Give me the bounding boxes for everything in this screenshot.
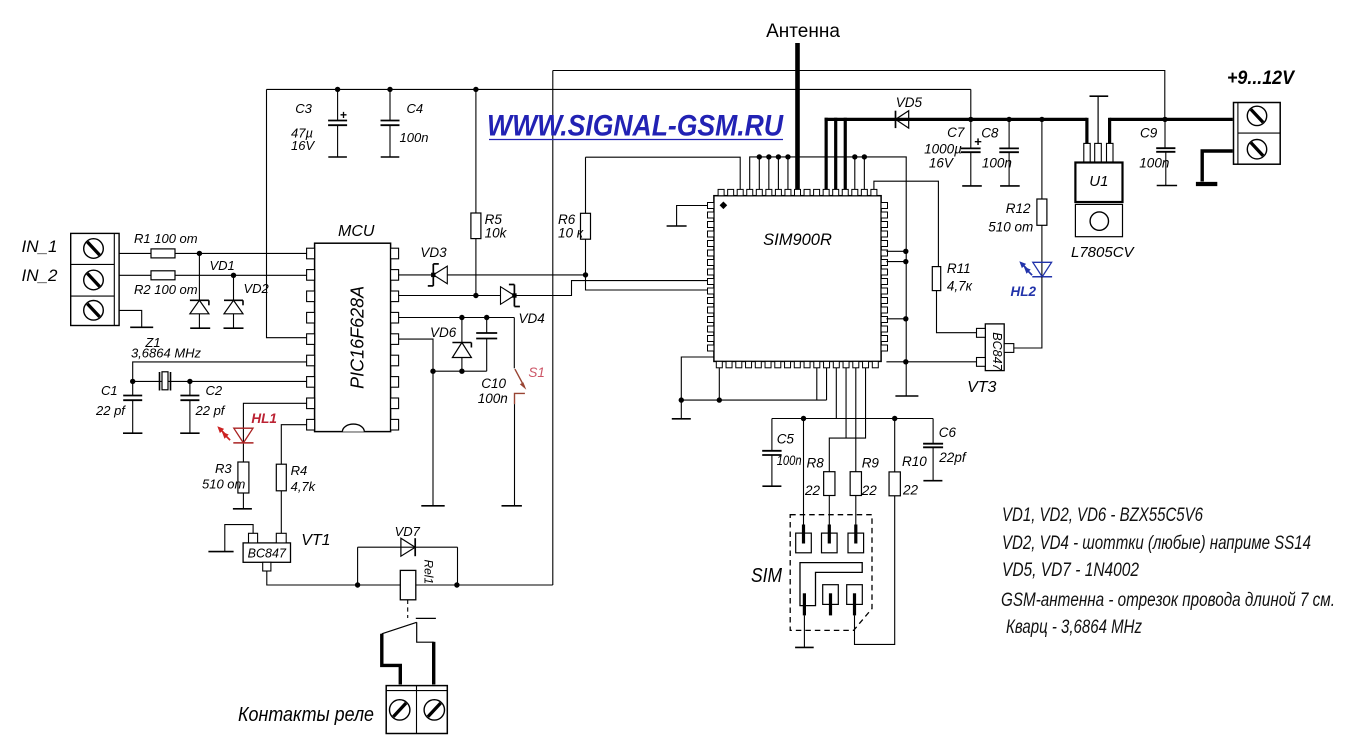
wire S1 bottom	[514, 404, 516, 506]
svg-text:VD2: VD2	[244, 281, 270, 296]
ground C3	[328, 156, 347, 158]
svg-text:R12: R12	[1006, 201, 1031, 216]
ground C8	[1000, 185, 1020, 187]
antenna lead	[795, 43, 800, 189]
wire crystal top	[133, 362, 307, 382]
wires segB stubs	[758, 157, 760, 190]
SIM900R top pins	[718, 189, 724, 195]
wire R3 to gnd	[242, 493, 244, 509]
svg-text:3,6864 MHz: 3,6864 MHz	[131, 346, 202, 361]
wire VD3 right	[447, 274, 585, 276]
wire U1 in thick	[1085, 118, 1088, 144]
node relay right	[454, 582, 459, 587]
svg-text:R4: R4	[291, 463, 308, 478]
node rail R10	[892, 416, 897, 421]
screw relay 2	[424, 700, 444, 720]
wire gnd line y400	[681, 399, 826, 401]
svg-text:VD1: VD1	[210, 258, 235, 273]
watermark underline	[489, 139, 783, 141]
svg-text:100n: 100n	[478, 391, 508, 406]
SIM900R left pins	[708, 203, 714, 209]
terminal block IN	[71, 233, 119, 325]
wire R12 to HL2	[1041, 225, 1043, 276]
svg-text:C3: C3	[295, 101, 312, 116]
svg-text:R2 100 om: R2 100 om	[134, 282, 198, 297]
node C3 top	[335, 87, 340, 92]
wire R11 top	[874, 181, 939, 266]
ground R3	[233, 508, 252, 510]
SIM900R pin1 mark	[720, 201, 728, 209]
wire relay pole right thick	[432, 642, 435, 685]
svg-text:VD6: VD6	[430, 325, 457, 340]
HL1 arrows	[221, 430, 226, 435]
VT3 pin left-bottom	[977, 358, 986, 367]
wire SIM topleft gnd	[677, 206, 708, 227]
wire R10 top	[894, 419, 896, 472]
svg-text:Антенна: Антенна	[766, 21, 840, 42]
svg-text:10k: 10k	[485, 226, 508, 241]
SIM holder outline	[790, 515, 872, 631]
wire IN_gnd	[119, 310, 142, 327]
svg-text:R8: R8	[807, 456, 825, 471]
svg-text:+9...12V: +9...12V	[1227, 67, 1296, 89]
svg-text:22: 22	[902, 483, 919, 498]
svg-text:Контакты реле: Контакты реле	[238, 704, 374, 726]
node C1	[130, 379, 135, 384]
U1 gnd T bar	[1090, 95, 1109, 97]
ground SIM bottomleft	[672, 418, 691, 420]
node x906 a	[903, 249, 908, 254]
svg-text:C8: C8	[981, 126, 999, 141]
diode VD5	[896, 111, 909, 128]
svg-text:R11: R11	[947, 261, 971, 276]
switch S1 contact	[515, 393, 525, 404]
node C7	[968, 117, 973, 122]
wire VD7 loop right	[457, 547, 459, 585]
svg-text:22 pf: 22 pf	[95, 403, 126, 418]
svg-text:C6: C6	[939, 425, 957, 440]
svg-text:C5: C5	[777, 432, 795, 447]
wire pin up 814	[816, 368, 818, 400]
capacitor C10	[486, 318, 488, 334]
wire rail to pad1	[803, 419, 805, 529]
wire S1 top	[513, 318, 515, 369]
svg-text:C4: C4	[407, 101, 424, 116]
svg-text:22 pf: 22 pf	[195, 403, 226, 418]
wire top box line	[553, 71, 1165, 120]
transistor VT3 body	[985, 324, 1004, 371]
ground C7	[962, 185, 982, 187]
wire VD3 left	[399, 274, 434, 276]
wire U1 gnd pin	[1097, 96, 1099, 143]
wire R6 to SIM	[586, 275, 708, 290]
svg-text:VT1: VT1	[301, 532, 330, 549]
svg-text:4,7k: 4,7k	[291, 479, 317, 494]
node VD2	[231, 273, 236, 278]
svg-text:VD7: VD7	[395, 524, 421, 539]
wire C5C6 rail	[772, 418, 933, 420]
svg-text:C7: C7	[947, 125, 965, 140]
switch S1 lever	[515, 369, 525, 387]
MCU bottom notch	[342, 424, 364, 432]
VT1 pin top-left	[249, 533, 258, 543]
wires thick to SIM pins	[825, 118, 828, 190]
wire R5 bottom	[475, 239, 477, 296]
wire segA R6 line	[586, 157, 741, 189]
zener VD6	[461, 318, 463, 343]
ground C1	[123, 432, 142, 434]
U1 lower body	[1075, 204, 1122, 236]
svg-text:VT3: VT3	[967, 379, 996, 396]
ground S1	[502, 505, 522, 507]
ground SIM pad	[795, 646, 814, 648]
resistor R4	[276, 464, 286, 491]
wire SIM right pin7	[886, 261, 905, 263]
wire U1 out thick	[1108, 118, 1111, 144]
svg-text:BC847: BC847	[248, 546, 287, 560]
svg-text:VD2, VD4 - шоттки (любые) напр: VD2, VD4 - шоттки (любые) наприме SS14	[1002, 532, 1311, 554]
wire VD7 loop left	[357, 547, 359, 585]
wire SIM pad gnd	[803, 615, 805, 647]
node gnd line a	[679, 397, 684, 402]
wire SIM right pin6	[886, 250, 905, 252]
screw IN_1	[84, 239, 104, 259]
wire top-left rail +5V	[267, 88, 971, 90]
wire MCU pin4	[399, 317, 515, 319]
wire VD4 left	[399, 295, 501, 297]
capacitor C7	[961, 147, 981, 149]
capacitor C4	[389, 89, 391, 120]
terminal block 12V	[1234, 103, 1281, 165]
svg-text:VD5, VD7 - 1N4002: VD5, VD7 - 1N4002	[1002, 559, 1139, 581]
wire SIM right pin13	[886, 318, 905, 320]
wire relay pole right	[417, 622, 434, 642]
screw IN_2	[84, 270, 104, 290]
svg-text:22pf: 22pf	[938, 450, 967, 465]
svg-text:BC847: BC847	[990, 332, 1004, 371]
capacitor C9	[1156, 147, 1175, 149]
capacitor C3	[337, 89, 339, 120]
wire rail to C7	[970, 89, 972, 148]
wire long vertical to relay	[552, 71, 554, 586]
wire relay rail	[358, 584, 553, 586]
wire MCU to HL1	[243, 403, 306, 462]
svg-text:R10: R10	[902, 454, 927, 469]
ground x906	[895, 395, 918, 397]
diode VD3 schottky	[433, 266, 447, 284]
wire MCU pin5 down	[399, 339, 433, 506]
ground C5	[762, 485, 781, 487]
svg-text:C1: C1	[101, 383, 118, 398]
node R5 top	[473, 87, 478, 92]
ground MCU wire	[421, 505, 444, 507]
svg-text:1000µ: 1000µ	[924, 142, 962, 157]
wire segB	[750, 157, 907, 190]
svg-text:100n: 100n	[777, 453, 802, 468]
SIM center track	[800, 563, 862, 606]
resistor R1	[151, 249, 175, 258]
svg-text:WWW.SIGNAL-GSM.RU: WWW.SIGNAL-GSM.RU	[487, 109, 784, 142]
wire R6 bottom	[585, 239, 587, 275]
svg-text:L7805CV: L7805CV	[1071, 244, 1136, 261]
LED HL1	[234, 428, 253, 443]
ground SIM topleft	[667, 225, 687, 227]
wire thick rail left	[825, 118, 1087, 121]
node VD6 top	[459, 315, 464, 320]
capacitor C2	[189, 381, 191, 395]
svg-text:HL2: HL2	[1011, 284, 1037, 299]
wire VT3 base	[886, 361, 976, 363]
svg-text:C9: C9	[1140, 125, 1158, 140]
svg-text:S1: S1	[528, 365, 545, 380]
ground C9	[1157, 185, 1177, 187]
wire pin 833 to rail	[835, 368, 837, 419]
U1 pin boxes	[1084, 143, 1090, 162]
svg-text:510 om: 510 om	[988, 220, 1033, 235]
relay blade	[382, 622, 417, 634]
svg-text:VD1, VD2, VD6 - BZX55C5V6: VD1, VD2, VD6 - BZX55C5V6	[1002, 504, 1203, 526]
svg-text:Rel1: Rel1	[421, 559, 435, 584]
wire R4 to VT1	[280, 491, 282, 534]
resistor R10	[889, 472, 900, 496]
wire pin 843 stub	[845, 368, 847, 438]
wire VT1 emitter to gnd	[225, 525, 253, 552]
wire C9	[1164, 119, 1166, 148]
node x906 b	[903, 259, 908, 264]
wire thick rail right	[1110, 118, 1233, 121]
svg-text:VD5: VD5	[896, 95, 923, 110]
SIM bottom pads	[823, 585, 839, 605]
ground 12V thick	[1196, 182, 1217, 186]
svg-text:C2: C2	[206, 383, 223, 398]
wire pin up 824 corner	[826, 368, 828, 400]
resistor R8	[824, 472, 835, 496]
node gnd line b	[717, 397, 722, 402]
MCU pins	[307, 248, 315, 259]
resistor R11	[932, 267, 940, 291]
VT3 pin right	[1004, 344, 1014, 353]
SIM900R right pins	[881, 203, 887, 209]
relay contact bar	[416, 617, 436, 619]
ground C6	[923, 480, 942, 482]
op-amp MCU body	[315, 243, 391, 431]
crystal Z1	[159, 372, 161, 391]
ground VD2	[224, 327, 244, 329]
svg-text:IN_2: IN_2	[22, 266, 58, 285]
svg-text:VD3: VD3	[420, 245, 447, 260]
svg-text:R3: R3	[215, 461, 232, 476]
wire left rail drop to MCU VDD pin	[267, 89, 307, 337]
screw 12V-	[1247, 140, 1266, 159]
U1 mount hole	[1090, 212, 1108, 230]
svg-text:22: 22	[804, 483, 821, 498]
relay dashed link	[407, 600, 409, 618]
wire crystal mid	[133, 380, 307, 382]
wire R2 to MCU	[175, 274, 307, 276]
node VT3 base	[903, 359, 908, 364]
node C2	[187, 379, 192, 384]
VT1 pin bottom	[263, 562, 271, 571]
svg-text:HL1: HL1	[251, 411, 277, 426]
node C10 top	[484, 315, 489, 320]
node wire433	[430, 369, 435, 374]
wire R1 to MCU	[175, 252, 307, 254]
wire R12 top	[1041, 119, 1043, 199]
node C9	[1162, 117, 1167, 122]
svg-text:100n: 100n	[982, 156, 1012, 171]
svg-text:PIC16F628A: PIC16F628A	[348, 286, 368, 389]
wire IN_2 to R2	[119, 274, 151, 276]
wire R10 bottom	[855, 496, 895, 645]
wire IN_1 to R1	[119, 252, 151, 254]
terminal block relay	[386, 686, 447, 734]
node C4 top	[387, 87, 392, 92]
ground VT1	[208, 551, 233, 553]
SIM900R bottom pins	[716, 361, 722, 367]
wire R8 pins	[829, 368, 865, 472]
wire R5 top	[475, 89, 477, 213]
wire C8	[1008, 119, 1010, 148]
capacitor C6	[932, 419, 934, 444]
svg-text:R1 100 om: R1 100 om	[134, 231, 198, 246]
wire HL2 to VT3	[1014, 277, 1042, 348]
capacitor C1	[132, 381, 134, 395]
transistor VT1 body	[243, 543, 290, 562]
svg-text:510 om: 510 om	[202, 477, 246, 492]
ground C4	[381, 156, 400, 158]
svg-text:MCU: MCU	[338, 223, 375, 240]
LED HL2	[1033, 262, 1052, 277]
resistor R6	[581, 213, 591, 239]
resistor R9	[850, 472, 861, 496]
svg-text:+: +	[340, 108, 347, 122]
resistor R5	[471, 213, 481, 239]
svg-text:10 к: 10 к	[558, 226, 584, 241]
diode VD7	[401, 538, 415, 556]
wire VD4 right	[514, 281, 707, 296]
svg-text:SIM: SIM	[751, 565, 782, 587]
VT3 pin left-top	[977, 328, 986, 337]
svg-text:Кварц - 3,6864 MHz: Кварц - 3,6864 MHz	[1006, 616, 1142, 638]
SIM top pads	[796, 533, 812, 553]
wire pin up 719	[718, 368, 720, 400]
relay coil Rel1	[400, 570, 416, 599]
svg-text:100n: 100n	[400, 130, 429, 145]
svg-text:16V: 16V	[929, 156, 955, 171]
U1 body	[1075, 163, 1122, 203]
node x906 c	[903, 316, 908, 321]
svg-text:SIM900R: SIM900R	[763, 231, 832, 249]
svg-text:100n: 100n	[1139, 156, 1169, 171]
screw relay 1	[390, 700, 410, 720]
resistor R12	[1037, 199, 1047, 225]
wire 12V gnd thick	[1202, 151, 1233, 182]
VT1 pin top-right	[276, 533, 286, 543]
wire R8 to pad	[828, 496, 830, 529]
svg-text:16V: 16V	[291, 138, 315, 153]
node C8	[1006, 117, 1011, 122]
node rail pad1	[801, 416, 806, 421]
svg-text:R9: R9	[862, 456, 880, 471]
svg-text:GSM-антенна - отрезок провода: GSM-антенна - отрезок провода длиной 7 с…	[1001, 589, 1335, 611]
node relay left	[355, 582, 360, 587]
svg-text:VD4: VD4	[519, 311, 545, 326]
wire R6 top	[585, 157, 587, 213]
node VD6 bottom	[459, 369, 464, 374]
wire SIM bottomleft	[681, 357, 714, 400]
HL2 arrows	[1023, 265, 1028, 270]
wire VD6 C10 bottom	[433, 370, 487, 372]
wire right drop x906	[905, 157, 907, 396]
SIM900R body	[714, 196, 881, 362]
wire R9 pin	[855, 368, 857, 472]
zener VD2	[233, 275, 235, 300]
node R12 top	[1039, 117, 1044, 122]
screw 12V+	[1247, 106, 1266, 125]
ground VD1	[190, 327, 210, 329]
wire VD7 wire	[358, 546, 458, 548]
wire R11 bottom	[937, 291, 977, 333]
svg-text:C10: C10	[481, 376, 506, 391]
svg-text:IN_1: IN_1	[22, 237, 58, 256]
node VD1	[197, 251, 202, 256]
wire gnd drop	[680, 400, 682, 419]
svg-text:U1: U1	[1089, 173, 1108, 190]
node R6 bottom	[583, 272, 588, 277]
capacitor C5	[771, 419, 773, 451]
capacitor C8	[999, 147, 1019, 149]
svg-text:22: 22	[861, 483, 878, 498]
screw IN_gnd	[84, 301, 104, 321]
wire R9 to pad	[855, 496, 857, 529]
wire relay pole left thick	[382, 634, 401, 685]
resistor R2	[151, 271, 175, 280]
wire MCU to R4	[281, 425, 306, 465]
diode VD4 schottky	[501, 287, 515, 305]
node R5 bottom	[473, 293, 478, 298]
ground C2	[180, 432, 199, 434]
wire VT1 to relay	[267, 571, 358, 585]
ground IN block	[130, 326, 153, 328]
zener VD1	[198, 253, 200, 300]
resistor R3	[238, 462, 249, 493]
svg-text:4,7к: 4,7к	[947, 279, 973, 294]
